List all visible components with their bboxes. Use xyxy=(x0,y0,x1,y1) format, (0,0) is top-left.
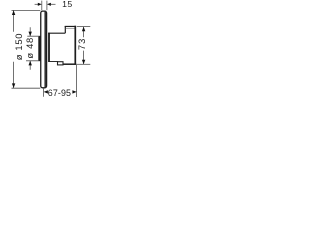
dimension 67-95: right extension line xyxy=(76,65,78,98)
dimension ø48: top arrowhead (pointing down) xyxy=(29,32,32,37)
escutcheon plate (side view, ø150) xyxy=(41,11,47,88)
top box: left edge xyxy=(64,26,66,33)
dimension ø48: top tick xyxy=(27,35,40,37)
dimension 73: dimension line xyxy=(83,27,85,65)
dimension ø48: bottom tick xyxy=(26,60,41,62)
dimension ø150: dimension line xyxy=(13,10,15,88)
dimension ø150: top arrowhead xyxy=(12,10,15,15)
dimension 67-95: left arrowhead (pointing left) xyxy=(44,90,48,93)
dimension ø150: bottom extension tick xyxy=(12,87,41,89)
concealed body: left edge xyxy=(48,33,50,62)
background xyxy=(0,0,100,100)
dimension 15: left arrowhead (pointing right) xyxy=(38,3,42,6)
dimension 15: left extension line xyxy=(41,1,43,11)
dimension 15: right arrowhead (pointing left) xyxy=(47,3,51,6)
dimension 73: top arrowhead xyxy=(82,27,85,32)
concealed body: bottom edge (lower, right part) xyxy=(63,63,77,65)
svg-text:ø 150: ø 150 xyxy=(13,33,24,60)
concealed body: bottom notch xyxy=(58,62,64,65)
plate back face line xyxy=(44,11,46,87)
dimension 73: bottom arrowhead xyxy=(82,60,85,65)
dimension ø150: top extension tick xyxy=(12,9,41,11)
dimension 67-95: right arrowhead (pointing right) xyxy=(72,90,76,93)
dimension 15: right arrow shaft xyxy=(51,3,56,5)
svg-text:73: 73 xyxy=(76,38,87,50)
top box: inner line xyxy=(66,28,75,30)
dimension 73: top tick xyxy=(77,26,91,28)
svg-text:67-95: 67-95 xyxy=(48,88,71,98)
dimension ø150: bottom arrowhead xyxy=(12,83,15,88)
dimension 67-95: left extension line xyxy=(43,89,45,97)
concealed body: right edge xyxy=(74,26,76,65)
svg-text:ø 48: ø 48 xyxy=(24,37,35,59)
concealed body: top edge xyxy=(48,32,65,34)
dimension ø48: dimension line xyxy=(29,27,31,69)
dimension 15: right extension line xyxy=(46,1,48,11)
dimension 15: left arrow shaft xyxy=(35,3,39,5)
dimension 73: bottom tick xyxy=(77,63,91,65)
dimension ø48: bottom arrowhead (pointing up) xyxy=(29,61,32,66)
top box: top edge xyxy=(65,25,76,27)
handle knob (side view, ø48) xyxy=(38,36,41,61)
svg-text:15: 15 xyxy=(62,0,73,9)
concealed body: bottom edge (upper, left part) xyxy=(48,61,58,63)
